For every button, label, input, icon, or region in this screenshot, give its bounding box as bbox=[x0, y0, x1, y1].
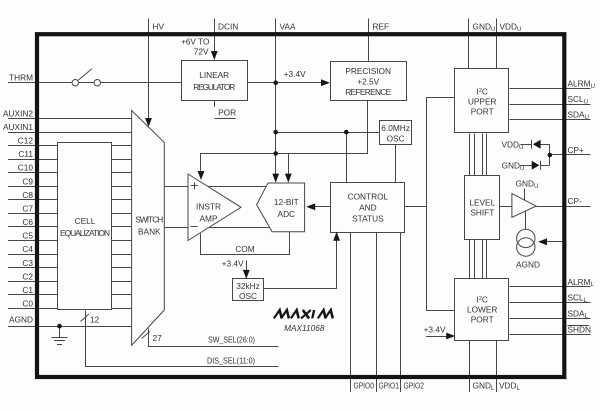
svg-text:OSC: OSC bbox=[387, 134, 405, 144]
wire regulator output to reference bbox=[247, 82, 322, 84]
pin ALRML wire bbox=[510, 286, 591, 288]
svg-text:C0: C0 bbox=[22, 299, 33, 309]
svg-text:CP+: CP+ bbox=[568, 145, 585, 155]
pin DCIN wire bbox=[214, 19, 216, 53]
svg-text:AGND: AGND bbox=[516, 260, 540, 270]
wire current source input bbox=[546, 241, 563, 243]
comparator U4 bbox=[512, 194, 536, 218]
pin C8 wire bbox=[8, 199, 132, 201]
pin AUXIN1 wire bbox=[8, 132, 132, 134]
wire I2C rail vertical bbox=[426, 97, 428, 311]
wire VAA to 6.0MHz osc bbox=[276, 132, 380, 134]
svg-text:12: 12 bbox=[90, 314, 100, 324]
svg-text:SW_SEL(26:0): SW_SEL(26:0) bbox=[208, 334, 255, 344]
pin SCLL wire bbox=[510, 302, 591, 304]
wire control to ADC bbox=[314, 206, 331, 208]
arrowhead REF branch into ADC bbox=[285, 174, 292, 183]
pin GPIO0 wire bbox=[350, 232, 352, 393]
svg-text:LINEAR: LINEAR bbox=[199, 70, 229, 80]
svg-text:27: 27 bbox=[153, 333, 163, 343]
pin C0 wire bbox=[8, 308, 132, 310]
wire CP+ node vertical bbox=[549, 144, 551, 165]
arrowhead +3.4V into 32kHz osc bbox=[243, 270, 250, 279]
svg-text:I2C: I2C bbox=[477, 87, 488, 97]
wire diode D1 to CP+ node bbox=[540, 144, 549, 146]
bus level shift to lower port line1 bbox=[469, 239, 471, 278]
svg-text:C6: C6 bbox=[22, 217, 33, 227]
svg-text:UPPER: UPPER bbox=[468, 97, 497, 107]
svg-text:DIS_SEL(11:0): DIS_SEL(11:0) bbox=[207, 355, 255, 365]
wire +3.4V into lower port bbox=[426, 336, 448, 338]
svg-text:C8: C8 bbox=[22, 190, 33, 200]
svg-text:GPIO2: GPIO2 bbox=[404, 381, 425, 391]
bus level shift to lower port line3 bbox=[482, 239, 484, 278]
wire +3.4V into 32kHz osc bbox=[246, 261, 248, 272]
label POR bbox=[214, 100, 236, 118]
svg-text:C9: C9 bbox=[22, 176, 33, 186]
svg-text:DCIN: DCIN bbox=[218, 22, 238, 32]
svg-text:C3: C3 bbox=[22, 258, 33, 268]
junction node AGND bbox=[57, 324, 62, 329]
bus upper port to level shift line1 bbox=[469, 134, 471, 176]
label INSTR AMP bbox=[196, 202, 221, 224]
pin VDDL wire bbox=[496, 341, 498, 393]
pin ALRMU wire bbox=[510, 88, 591, 90]
svg-text:COM: COM bbox=[235, 244, 254, 254]
label SWITCH BANK bbox=[135, 215, 163, 237]
label 32kHz OSC bbox=[236, 281, 260, 301]
svg-text:+3.4V: +3.4V bbox=[284, 69, 306, 79]
pin VAA wire bbox=[275, 19, 277, 179]
reference U3 box bbox=[331, 62, 407, 101]
pin THRM wire bbox=[8, 82, 181, 84]
pin C6 wire bbox=[8, 226, 132, 228]
pin C3 wire bbox=[8, 267, 132, 269]
svg-text:CELL: CELL bbox=[75, 216, 96, 226]
svg-text:C5: C5 bbox=[22, 231, 33, 241]
svg-text:PORT: PORT bbox=[471, 107, 494, 117]
wire cell equalization DIS_SEL bbox=[86, 311, 279, 367]
svg-text:6.0MHz: 6.0MHz bbox=[381, 123, 410, 133]
svg-text:+2.5V: +2.5V bbox=[357, 77, 379, 87]
svg-text:+3.4V: +3.4V bbox=[424, 325, 446, 335]
switch bank shape bbox=[132, 111, 165, 346]
switch blade on THRM bbox=[78, 69, 92, 80]
wire rail to lower port bbox=[426, 310, 455, 312]
svg-text:32kHz: 32kHz bbox=[236, 281, 260, 291]
wire control to I2C rail bbox=[405, 206, 426, 208]
wire osc junction to control top bbox=[346, 132, 348, 182]
current source I1 bbox=[517, 229, 535, 256]
I2C upper port box bbox=[455, 69, 509, 133]
label SHDN with overbar bbox=[568, 325, 592, 335]
svg-text:+3.4V: +3.4V bbox=[222, 259, 244, 269]
svg-text:C11: C11 bbox=[18, 149, 33, 159]
svg-text:OSC: OSC bbox=[239, 291, 257, 301]
svg-text:+6V TO: +6V TO bbox=[181, 37, 210, 47]
regulator U2 box bbox=[182, 61, 248, 101]
diode D1 bbox=[532, 140, 541, 149]
label I2C LOWER PORT bbox=[467, 295, 497, 325]
svg-text:INSTR: INSTR bbox=[196, 202, 221, 212]
6.0MHz oscillator box bbox=[380, 121, 412, 145]
arrowhead 32kHz into control bbox=[333, 232, 340, 241]
arrowhead VAA into ADC bbox=[272, 174, 279, 183]
svg-text:AMP: AMP bbox=[200, 214, 218, 224]
wire switch bank to amp - input bbox=[164, 227, 188, 229]
diode D2 bbox=[532, 161, 541, 170]
svg-text:GPIO0: GPIO0 bbox=[354, 381, 375, 391]
bus upper port to level shift line4 bbox=[486, 134, 488, 176]
wire level shift to comparator bbox=[500, 206, 512, 208]
pin C10 wire bbox=[8, 172, 132, 174]
svg-text:REFERENCE: REFERENCE bbox=[345, 87, 391, 97]
svg-text:C12: C12 bbox=[18, 136, 34, 146]
wire amp to ADC upper bbox=[200, 186, 290, 188]
amp plus sign bbox=[191, 182, 198, 189]
svg-text:C10: C10 bbox=[18, 163, 34, 173]
ground symbol AGND bbox=[52, 326, 68, 344]
bus upper port to level shift line2 bbox=[474, 134, 476, 176]
wire GNDU to diode D2 bbox=[520, 165, 532, 167]
svg-text:REF: REF bbox=[373, 22, 390, 32]
wire COM bbox=[201, 232, 290, 255]
pin REF wire bbox=[368, 19, 370, 62]
label LINEAR REGULATOR bbox=[193, 70, 235, 92]
svg-text:AND: AND bbox=[359, 203, 377, 213]
I2C lower port box bbox=[455, 279, 509, 341]
junction node osc control line bbox=[344, 130, 349, 135]
label I2C UPPER PORT bbox=[468, 87, 497, 117]
pin C1 wire bbox=[8, 294, 132, 296]
svg-text:PRECISION: PRECISION bbox=[345, 66, 391, 76]
wire reference distribution bbox=[201, 101, 368, 172]
junction node CP+ bbox=[548, 153, 553, 158]
12-bit ADC shape bbox=[257, 183, 305, 232]
wire rail to upper port bbox=[426, 97, 455, 99]
svg-text:AUXIN2: AUXIN2 bbox=[3, 108, 33, 118]
pin AGND wire bbox=[8, 326, 132, 328]
pin GNDU wire bbox=[468, 19, 470, 70]
svg-text:I2C: I2C bbox=[477, 295, 488, 305]
svg-text:THRM: THRM bbox=[9, 73, 33, 83]
svg-text:STATUS: STATUS bbox=[352, 214, 384, 224]
label CELL EQUALIZATION bbox=[60, 216, 110, 238]
bus upper port to level shift line3 bbox=[482, 134, 484, 176]
wire comparator to current source bbox=[525, 212, 527, 230]
svg-text:POR: POR bbox=[218, 108, 236, 118]
wire 32kHz osc to control bbox=[264, 241, 337, 289]
svg-text:REGULATOR: REGULATOR bbox=[193, 82, 235, 92]
arrowhead into current source bbox=[538, 238, 547, 245]
wire reference branch to ADC bbox=[288, 154, 290, 179]
arrowhead REF into amp bbox=[198, 171, 205, 180]
switch S1 contacts bbox=[72, 80, 100, 86]
pin VDDU wire bbox=[496, 19, 498, 70]
label 12-BIT ADC bbox=[274, 197, 299, 219]
pin C9 wire bbox=[8, 186, 132, 188]
bus slash 12 bbox=[81, 314, 90, 322]
pin SHDN wire bbox=[510, 334, 591, 336]
control and status box bbox=[331, 183, 405, 233]
wire GNDU stub to comparator bbox=[524, 189, 526, 201]
pin C5 wire bbox=[8, 240, 132, 242]
svg-text:AGND: AGND bbox=[9, 315, 33, 325]
arrowhead regulator out into reference bbox=[321, 79, 330, 86]
arrowhead control into ADC bbox=[306, 203, 315, 210]
MAXIM logo bbox=[274, 310, 335, 318]
pin C2 wire bbox=[8, 281, 132, 283]
svg-text:GPIO1: GPIO1 bbox=[379, 381, 400, 391]
wire VDDU to diode D1 bbox=[520, 144, 532, 146]
svg-text:LOWER: LOWER bbox=[467, 305, 497, 315]
svg-text:72V: 72V bbox=[194, 47, 209, 57]
pin AUXIN2 wire bbox=[8, 118, 132, 120]
svg-text:SWITCH: SWITCH bbox=[135, 215, 163, 225]
svg-text:CONTROL: CONTROL bbox=[348, 192, 389, 202]
svg-text:C4: C4 bbox=[22, 244, 33, 254]
svg-text:VAA: VAA bbox=[280, 22, 296, 32]
wire 6.0MHz osc to control bbox=[395, 144, 397, 182]
pin C11 wire bbox=[8, 159, 132, 161]
svg-text:SHIFT: SHIFT bbox=[470, 208, 494, 218]
arrowhead HV into switch bank bbox=[145, 118, 152, 127]
32kHz oscillator box bbox=[233, 279, 264, 301]
pin CP+ wire bbox=[550, 154, 591, 156]
op-amp instrumentation amplifier bbox=[188, 174, 241, 241]
wire amp to ADC lower bbox=[200, 227, 290, 229]
svg-text:EQUALIZATION: EQUALIZATION bbox=[60, 228, 110, 238]
cell equalization box bbox=[58, 143, 112, 310]
pin HV wire bbox=[148, 19, 150, 120]
svg-text:HV: HV bbox=[153, 22, 165, 32]
pin SCLU wire bbox=[510, 104, 591, 106]
svg-text:AUXIN1: AUXIN1 bbox=[3, 122, 33, 132]
svg-text:C1: C1 bbox=[22, 285, 33, 295]
svg-text:12-BIT: 12-BIT bbox=[274, 197, 299, 207]
pin GPIO1 wire bbox=[376, 232, 378, 393]
pin C7 wire bbox=[8, 213, 132, 215]
label +6V TO 72V bbox=[181, 37, 210, 57]
pin C4 wire bbox=[8, 254, 132, 256]
pin GNDL wire bbox=[469, 341, 471, 393]
pin SDAU wire bbox=[510, 119, 591, 121]
svg-text:C7: C7 bbox=[22, 204, 33, 214]
junction node regulator output VAA bbox=[273, 80, 278, 85]
svg-text:BANK: BANK bbox=[138, 227, 161, 237]
pin GPIO2 wire bbox=[400, 232, 402, 393]
arrowhead +3.4V into lower port bbox=[446, 333, 455, 340]
svg-text:LEVEL: LEVEL bbox=[469, 198, 495, 208]
svg-text:MAX11068: MAX11068 bbox=[284, 323, 325, 333]
svg-text:ALRML: ALRML bbox=[568, 277, 595, 288]
junction node VAA ref line bbox=[273, 151, 278, 156]
svg-text:ADC: ADC bbox=[278, 209, 296, 219]
outer border bbox=[37, 34, 564, 377]
label LEVEL SHIFT bbox=[469, 198, 495, 218]
svg-text:SHDN: SHDN bbox=[568, 325, 592, 335]
pin SDAL wire bbox=[510, 318, 591, 320]
label 6.0MHz OSC bbox=[381, 123, 410, 144]
svg-text:CP-: CP- bbox=[568, 196, 583, 206]
arrowhead DCIN into regulator bbox=[211, 51, 218, 60]
wire diode D2 to CP+ node bbox=[540, 165, 550, 167]
pin C12 wire bbox=[8, 145, 132, 147]
bus level shift to lower port line2 bbox=[474, 239, 476, 278]
label PRECISION +2.5V REFERENCE bbox=[345, 66, 391, 97]
junction node VAA osc line bbox=[273, 130, 278, 135]
bus level shift to lower port line4 bbox=[486, 239, 488, 278]
svg-text:C2: C2 bbox=[22, 271, 33, 281]
svg-text:PORT: PORT bbox=[471, 315, 494, 325]
wire switch bank SW_SEL bbox=[149, 329, 279, 347]
wire switch bank to amp + input bbox=[164, 186, 188, 188]
level shift box bbox=[465, 176, 500, 240]
pin CP- wire bbox=[536, 206, 590, 208]
label CONTROL AND STATUS bbox=[348, 192, 389, 224]
bus slash 27 bbox=[142, 332, 151, 339]
amp minus sign bbox=[191, 226, 198, 228]
